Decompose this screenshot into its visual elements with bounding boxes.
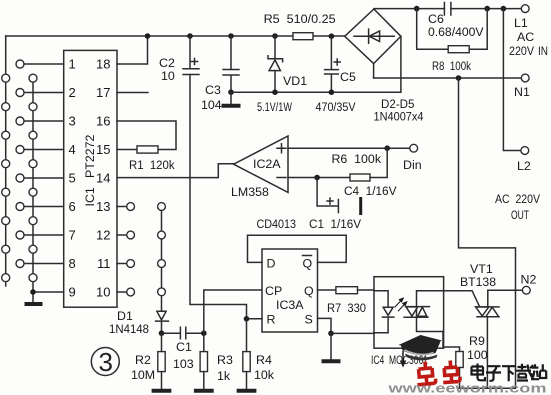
capacitor C1 103 [162,327,204,339]
svg-text:9: 9 [69,285,76,300]
address rail A pads [2,74,10,282]
svg-text:8: 8 [69,256,76,271]
wire: pin14 to op-amp output [117,164,234,178]
wire: R6 right to + line [370,148,387,177]
wire: IC4 pin4 to VT1 gate [444,291,480,307]
wire: output select column to D1 [161,210,163,311]
led light arrows [395,298,407,311]
wire: Q output to R7 [318,289,336,291]
node: VD1 bottom [272,89,278,95]
wire: mains top bus (L1) [374,8,521,10]
pin Qbar [303,256,313,271]
wire: R8 loop left [417,9,449,50]
svg-text:103: 103 [173,357,194,371]
svg-text:1N4148: 1N4148 [109,322,149,336]
node: D1 / C1 / R2 [159,330,165,336]
capacitor C2 (electrolytic 10u) [183,36,199,75]
svg-text:R6 100k: R6 100k [332,152,382,166]
svg-text:R5 510/0.25: R5 510/0.25 [264,12,336,26]
pin 9 wire (ground) [33,291,64,293]
terminal L2 [521,147,529,155]
node: C1 / R3 / CP [201,330,207,336]
wire: N1 line [374,77,522,79]
wire: bridge bottom corner to N1 line [373,64,375,78]
pin 2 wire [24,92,64,94]
svg-text:R3: R3 [217,353,233,367]
ground (R4) [237,389,257,393]
svg-text:4: 4 [69,142,76,157]
resistor R6 [350,174,370,181]
svg-text:5.1V/1W: 5.1V/1W [257,100,292,114]
svg-text:470/35V: 470/35V [316,100,357,114]
resistor R2 10M [158,333,165,389]
wire: Qbar to D feedback loop [248,235,347,262]
svg-text:10: 10 [161,69,175,83]
node: C5 top [329,33,335,39]
node: - input / C4 [314,175,320,181]
wire: R7 to IC4 [358,289,375,291]
svg-text:15: 15 [96,142,110,157]
pin numbers IC1 right column [96,57,110,300]
wire: pin17 stub [117,92,148,94]
svg-text:100: 100 [467,348,488,362]
wire: pin15 to R1 [117,149,137,151]
wire: op-amp - input [288,177,350,179]
ic U1 PT2272 body [64,50,117,307]
wire: pin16 loop [117,121,176,150]
svg-text:C3: C3 [205,83,221,97]
ground (R3) [194,389,214,393]
svg-text:N1: N1 [514,85,530,99]
node: C5 bottom [329,89,335,95]
capacitor C5 (electrolytic 470/35V) [325,36,341,92]
svg-text:6: 6 [69,199,76,214]
svg-text:C1 1/16V: C1 1/16V [309,217,362,231]
svg-text:L2: L2 [517,159,531,173]
watermark text 电子下载站 [472,364,547,382]
ic U3 IC3A CD4013 body [262,249,318,332]
pad pin10 [127,288,135,296]
resistor R3 1k [200,333,207,389]
svg-text:C2: C2 [159,56,175,70]
svg-text:3: 3 [99,347,113,377]
svg-text:10k: 10k [254,368,275,382]
wire: +V top bus left segment [6,35,293,37]
wire: R9 bottom to rail [459,368,461,389]
svg-text:R2: R2 [135,353,151,367]
wire: CP link from C1 node [204,290,262,333]
svg-text:3: 3 [69,114,76,129]
svg-text:14: 14 [96,171,110,186]
svg-text:R8 100k: R8 100k [432,59,472,73]
node: S ground node [328,331,334,337]
node: R / R4 [244,316,250,322]
wire: address rail C (ground rail, inner vertical) [32,75,34,303]
output select pads [158,203,166,296]
node: VD1 top [272,33,278,39]
svg-text:220V: 220V [509,44,535,58]
address pin pads column B [16,60,24,268]
svg-text:1: 1 [69,57,76,72]
svg-text:OUT: OUT [511,208,529,222]
svg-text:Din: Din [403,158,422,172]
ic U4 MOC3061 body [374,277,444,349]
op-amp U2 IC2A LM358 [234,136,288,192]
svg-text:16: 16 [96,114,110,129]
resistor R1 [137,146,158,153]
node: C6 right [484,6,490,12]
wire: pin18 to +V bus [117,36,148,64]
svg-text:Q: Q [303,257,313,271]
node: pin18/bus [145,33,151,39]
wire: +V top bus right segment to bridge left corner [313,35,345,37]
address rail C pads [29,74,37,282]
node: C6 left [414,6,420,12]
watermark graduation cap [399,335,443,368]
svg-text:D1: D1 [117,309,133,323]
svg-text:12: 12 [96,228,110,243]
svg-text:VT1: VT1 [470,262,493,276]
svg-text:11: 11 [97,256,111,271]
wire: R input [247,318,263,320]
svg-text:1N4007x4: 1N4007x4 [374,110,424,124]
wire: pin11 stub [117,263,127,265]
svg-text:C5: C5 [340,70,356,84]
node: C2 top on bus [187,33,193,39]
wire: S to ground node [318,318,332,333]
wire: bottom rail [460,387,516,389]
wire: 0V bus [231,36,401,92]
svg-text:C1: C1 [176,340,192,354]
svg-text:R7 330: R7 330 [327,301,366,315]
pin 6 wire [24,206,64,208]
resistor R4 10k [243,319,250,389]
node: pin9 / ground rail junction [30,289,36,295]
svg-text:BT138: BT138 [460,275,496,289]
svg-text:R: R [267,313,276,327]
node: R6 right / + input [384,145,390,151]
terminal N2 [522,286,530,294]
wire: op-amp + input to Din [288,147,410,149]
wire: N1 branch down to triac net [459,78,516,388]
photo-triac inner box [417,291,444,332]
bridge rectifier D2-D5 [345,9,401,64]
svg-text:18: 18 [96,57,110,72]
wire: pin13 stub [117,206,127,208]
node: C3 top on bus [228,33,234,39]
svg-text:10: 10 [96,285,110,300]
svg-text:AC: AC [517,30,534,44]
pin numbers IC1 left column [69,57,76,300]
terminal L1 [521,5,529,13]
resistor R5 [293,33,313,40]
capacitor C4 (electrolytic) [317,178,362,216]
svg-text:D: D [267,257,276,271]
ground (C3 / 0V bus) [230,92,232,104]
svg-text:IN: IN [538,44,548,58]
wire: pin10 stub [117,291,127,293]
diode D1 1N4148 [156,311,169,333]
svg-text:L1: L1 [514,16,528,30]
svg-text:C6: C6 [428,12,444,26]
pin 4 wire [24,149,64,151]
terminal N1 [521,74,529,82]
svg-text:2: 2 [69,85,76,100]
ground (S node) [330,333,332,359]
ground (R2) [152,389,172,393]
pin 8 wire [24,263,64,265]
svg-text:R9: R9 [469,334,485,348]
svg-text:LM358: LM358 [231,185,269,199]
wire: IC4 pin6 to R9 [443,332,460,352]
pin 3 wire [24,120,64,122]
svg-text:10M: 10M [131,368,155,382]
pin 7 wire [24,234,64,236]
svg-text:1k: 1k [217,369,231,383]
node: C3 bottom on 0V bus [228,89,234,95]
svg-text:104: 104 [201,98,222,112]
svg-text:R1 120k: R1 120k [129,158,175,172]
svg-text:0.68/400V: 0.68/400V [428,25,484,39]
capacitor C3 104 [223,36,239,92]
pad pin12 [127,231,135,239]
svg-text:R4: R4 [256,353,272,367]
pad pin11 [127,260,135,268]
zener VD1 5.1V [268,36,283,92]
svg-text:IC3A: IC3A [276,298,304,312]
resistor R9 100 [456,352,463,368]
svg-text:VD1: VD1 [283,74,307,88]
svg-text:N2: N2 [521,273,537,287]
terminal Din [410,144,418,152]
svg-text:CP: CP [265,284,282,298]
led inside IC4 [374,291,394,333]
wire: S node to IC4 LED cathode [331,332,374,334]
svg-text:S: S [305,313,313,327]
node: N1 / triac branch [456,75,462,81]
pad pin13 [127,203,135,211]
wire: VT1 MT2 to N2 [488,289,523,291]
pin 5 wire [24,177,64,179]
wire: R8 loop right [469,9,487,50]
pin 1 wire [24,63,64,65]
wire: C2 bottom long vertical to reset node [190,75,247,319]
ground (address rail C) [25,302,43,306]
svg-text:www.eeworm.com: www.eeworm.com [387,381,546,395]
svg-text:CD4013: CD4013 [257,217,297,231]
svg-text:IC1: IC1 [83,187,97,206]
resistor R8 [448,46,469,53]
svg-text:PT2272: PT2272 [83,134,97,178]
wire: address rail A (VCC rail, far left vertical) [5,36,7,286]
capacitor C6 0.68/400V [444,3,451,16]
svg-text:IC2A: IC2A [253,157,281,171]
svg-text:Q: Q [304,284,314,298]
photo-triac symbol [404,307,429,318]
svg-text:C4 1/16V: C4 1/16V [344,184,397,198]
watermark red characters [415,360,460,385]
resistor R7 330 [336,287,358,294]
wire: L1 to L2 [503,9,521,151]
triac VT1 BT138 [476,290,499,388]
svg-text:5: 5 [69,171,76,186]
svg-text:17: 17 [96,85,110,100]
wire: pin12 stub [117,234,127,236]
svg-text:13: 13 [96,199,110,214]
svg-text:AC 220V: AC 220V [495,192,541,206]
label circled 3 [91,347,119,377]
node: L1 / L2 branch [501,6,507,12]
svg-text:7: 7 [69,228,76,243]
